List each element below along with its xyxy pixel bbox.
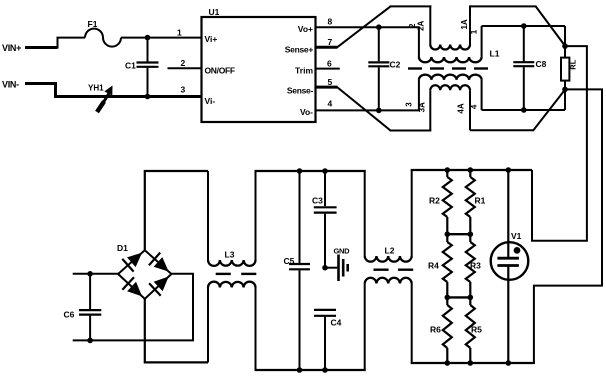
wire pin 2 stub xyxy=(168,67,202,69)
diode D1a (left to top) xyxy=(127,253,142,268)
capacitor C6 xyxy=(89,274,91,309)
svg-text:6: 6 xyxy=(327,59,332,69)
svg-text:R6: R6 xyxy=(430,325,441,335)
wire middle top rail xyxy=(255,170,366,172)
wire bottom-right jumper xyxy=(470,129,534,131)
transformer L1 terminal 2A lead xyxy=(429,5,431,44)
svg-text:C3: C3 xyxy=(312,196,323,206)
transformer L1 terminal 3A lead xyxy=(429,90,431,130)
node C3 top junction xyxy=(322,168,328,174)
resistor R4 xyxy=(443,242,452,282)
wire middle bottom rail xyxy=(255,369,366,371)
wire top-right jumper xyxy=(470,5,536,7)
svg-text:3: 3 xyxy=(181,85,186,95)
wire pin 7 diagonal xyxy=(337,6,391,47)
transformer L1 terminal 4 lead xyxy=(481,80,483,110)
svg-text:Vi-: Vi- xyxy=(205,96,216,106)
svg-text:L3: L3 xyxy=(225,250,235,260)
capacitor C3 xyxy=(324,171,326,206)
wire pin 8 to transformer terminal 2 xyxy=(316,26,420,28)
capacitor C8 xyxy=(523,26,525,61)
svg-text:1A: 1A xyxy=(460,19,469,29)
transformer L1 winding 4 (3A-4A) xyxy=(430,85,470,90)
wire RL bottom to lower-right network xyxy=(534,89,602,363)
svg-text:8: 8 xyxy=(328,17,333,27)
node RL bottom junction xyxy=(562,87,568,93)
svg-text:1: 1 xyxy=(469,29,478,34)
svg-text:C6: C6 xyxy=(64,310,75,320)
node RL top junction xyxy=(562,43,568,49)
tube V1 bottom wire xyxy=(507,266,509,364)
node R5 bottom junction xyxy=(468,360,474,366)
svg-text:VIN-: VIN- xyxy=(2,80,19,90)
svg-text:C8: C8 xyxy=(536,59,547,69)
node A junction (VIN+ rail / C1 top) xyxy=(145,35,151,41)
wire pin 5 diagonal xyxy=(337,87,391,131)
wire bridge left to C6 top xyxy=(73,273,119,275)
svg-text:VIN+: VIN+ xyxy=(2,43,21,53)
tube V1 electrodes xyxy=(497,257,519,260)
inductor L3 core xyxy=(216,273,231,275)
svg-text:R2: R2 xyxy=(429,196,440,206)
wire pin 6 stub xyxy=(316,68,340,70)
inductor L3 top winding xyxy=(207,171,209,260)
svg-text:F1: F1 xyxy=(88,19,98,29)
transformer L1 terminal 2 lead xyxy=(418,27,420,57)
svg-text:Vo+: Vo+ xyxy=(298,24,313,34)
svg-text:ON/OFF: ON/OFF xyxy=(205,65,235,75)
node C3/C4 middle junction xyxy=(322,265,328,271)
svg-text:3: 3 xyxy=(405,102,414,107)
node C6 top junction xyxy=(87,271,93,277)
wire VIN- step down to pin 3 xyxy=(56,82,203,97)
transformer L1 terminal 1 lead xyxy=(481,26,483,57)
wire bridge right loop to C6 bottom xyxy=(73,274,193,341)
svg-text:YH1: YH1 xyxy=(88,84,104,93)
wire terminal 4 to RL bottom xyxy=(482,109,565,111)
inductor L3 bottom winding xyxy=(207,288,209,363)
transformer L1 winding 3 (3-4) xyxy=(419,75,482,80)
wire top-right diagonal xyxy=(536,6,566,46)
svg-text:V1: V1 xyxy=(511,231,522,241)
diode D1c (left to bottom) xyxy=(127,282,142,297)
node C4 bottom junction xyxy=(322,367,328,373)
wire VIN- terminal segment xyxy=(25,82,56,85)
node C6 bottom junction xyxy=(87,338,93,344)
diode D1b (top to right) xyxy=(154,257,169,272)
inductor L2 core xyxy=(374,269,389,271)
resistor RL xyxy=(564,26,566,58)
node divider link 2 xyxy=(445,295,451,301)
tube V1 circle xyxy=(491,242,529,280)
node V1 top junction xyxy=(506,167,512,173)
op-amp U1 box xyxy=(202,17,316,122)
transformer L1 core xyxy=(408,67,422,69)
wire terminal 1 to RL top xyxy=(482,25,565,27)
svg-text:2: 2 xyxy=(408,23,417,28)
svg-text:L1: L1 xyxy=(490,49,500,59)
inductor L2 top winding xyxy=(364,171,366,256)
wire VIN+ step up xyxy=(58,38,86,49)
svg-text:C4: C4 xyxy=(331,318,342,328)
svg-text:2: 2 xyxy=(181,58,186,68)
node R1 top junction xyxy=(468,167,474,173)
svg-text:R4: R4 xyxy=(428,261,439,271)
svg-text:4: 4 xyxy=(328,99,333,109)
svg-text:GND: GND xyxy=(334,246,351,255)
node C2 top junction xyxy=(376,24,382,30)
wire bridge bottom to rail xyxy=(145,298,208,362)
wire bridge top to rail xyxy=(145,171,208,251)
wire bottom-right diagonal xyxy=(533,89,566,131)
transformer L1 terminal 1A lead xyxy=(469,5,471,44)
transformer L1 terminal 4A lead xyxy=(469,90,471,130)
capacitor C2 xyxy=(378,27,380,61)
inductor L2 bottom winding xyxy=(364,283,366,370)
svg-text:Vi+: Vi+ xyxy=(205,34,218,44)
node divider link 1 xyxy=(445,231,451,237)
svg-text:R1: R1 xyxy=(475,196,486,206)
svg-text:C2: C2 xyxy=(390,60,401,70)
wire right top rail xyxy=(411,169,532,171)
transformer L1 winding 1 (2A-1A) xyxy=(430,45,470,50)
node C5 bottom junction xyxy=(297,367,303,373)
svg-text:L2: L2 xyxy=(385,246,395,256)
node C8 bottom junction xyxy=(521,107,527,113)
svg-text:C1: C1 xyxy=(125,61,136,71)
bridge rectifier D1 outline xyxy=(118,250,171,299)
wire RL top to lower-right network xyxy=(532,46,587,241)
wire pin 5 stub xyxy=(316,86,338,89)
node C5 top junction xyxy=(297,168,303,174)
wire fuse to node A xyxy=(121,37,202,39)
wire VIN+ terminal segment xyxy=(25,46,58,49)
svg-text:2A: 2A xyxy=(416,20,425,30)
resistor R5 xyxy=(466,305,475,348)
capacitor C5 xyxy=(299,171,301,263)
svg-text:Vo-: Vo- xyxy=(300,107,313,117)
svg-text:U1: U1 xyxy=(209,7,220,17)
wire pin 7 stub xyxy=(316,46,338,49)
fuse F1 xyxy=(85,29,121,47)
wire bottom-left jumper xyxy=(390,130,432,132)
capacitor C4 xyxy=(314,309,336,311)
svg-text:Sense+: Sense+ xyxy=(285,44,314,54)
svg-text:Trim: Trim xyxy=(295,65,313,75)
resistor R2 xyxy=(446,170,448,177)
wire right bottom rail xyxy=(411,362,535,364)
resistor R1 xyxy=(469,170,471,177)
diode D1d (bottom to right) xyxy=(154,277,169,292)
node R6 bottom junction xyxy=(445,360,451,366)
capacitor C1 xyxy=(147,38,149,62)
svg-text:5: 5 xyxy=(328,77,333,87)
resistor R3 xyxy=(466,242,475,282)
wire top-left jumper xyxy=(390,5,432,7)
node C2 bottom junction xyxy=(376,108,382,114)
ground symbol xyxy=(325,267,337,269)
svg-text:1: 1 xyxy=(177,28,182,38)
transformer L1 winding 2 (2-1) xyxy=(419,57,482,62)
resistor R6 xyxy=(443,305,452,348)
node C8 top junction xyxy=(521,23,527,29)
tube V1 gas dot xyxy=(514,247,521,254)
wire pin 4 to transformer terminal 3 xyxy=(316,109,420,111)
node B junction (VIN- rail / C1 bottom) xyxy=(145,94,151,100)
tube V1 top wire xyxy=(507,170,509,258)
transformer L1 terminal 3 lead xyxy=(418,80,420,111)
node R2 top junction xyxy=(445,167,451,173)
varistor YH1 arrow xyxy=(97,102,104,113)
svg-text:7: 7 xyxy=(328,37,333,47)
svg-text:Sense-: Sense- xyxy=(287,86,314,96)
svg-text:4A: 4A xyxy=(457,103,466,113)
node V1 bottom junction xyxy=(506,360,512,366)
svg-text:D1: D1 xyxy=(117,243,128,253)
svg-text:3A: 3A xyxy=(418,102,427,112)
